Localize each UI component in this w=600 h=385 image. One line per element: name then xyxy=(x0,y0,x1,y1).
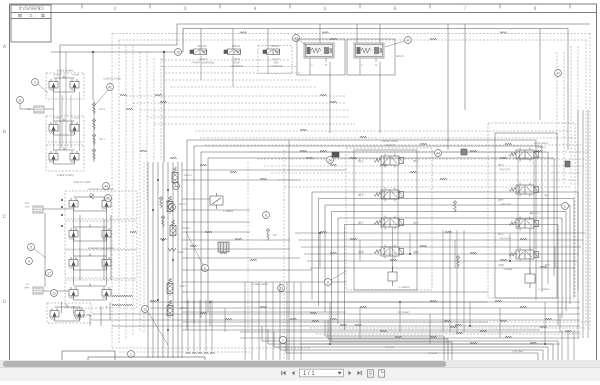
small port box right of group2 xyxy=(565,161,570,167)
pilot group lower enclosure 4 xyxy=(65,280,137,308)
junction dots buses xyxy=(209,301,211,303)
svg-text:LOWER: LOWER xyxy=(53,74,61,77)
valve group 2 dashed enclosure xyxy=(488,123,575,298)
wire top rail 2 with corner drop xyxy=(51,29,568,53)
check chain between groups lower xyxy=(456,255,460,268)
wire bundle between right groups xyxy=(443,230,464,332)
svg-text:FORWARD BACKWARD: FORWARD BACKWARD xyxy=(88,247,114,250)
directional valve V5 xyxy=(509,148,538,162)
svg-text:保温: 保温 xyxy=(498,263,504,267)
horizontal scrollbar thumb xyxy=(3,361,446,367)
tank rectangle bottom left B xyxy=(88,357,205,378)
svg-text:保温: 保温 xyxy=(358,250,364,254)
pilot group upper dashed enclosure 2 xyxy=(46,116,84,142)
svg-text:尾下: 尾下 xyxy=(498,198,504,202)
check valve chain CV5 xyxy=(159,196,163,209)
manifold dashed enclosure right edge xyxy=(247,162,249,332)
balloon 8 group1 xyxy=(325,279,332,286)
svg-text:1 (P1)/A&T: 1 (P1)/A&T xyxy=(512,350,524,353)
svg-text:PS-3: PS-3 xyxy=(99,108,105,111)
svg-text:2: 2 xyxy=(34,80,36,84)
svg-text:44: 44 xyxy=(104,184,108,188)
svg-text:HOIST: HOIST xyxy=(73,74,80,77)
svg-text:(P1)/A&T →: (P1)/A&T → xyxy=(385,346,397,349)
svg-text:T: T xyxy=(311,63,313,67)
dashed short horizontals mid-left xyxy=(126,60,355,124)
svg-text:SOL12: SOL12 xyxy=(184,174,192,177)
leader balloon6 xyxy=(186,232,203,265)
svg-text:6: 6 xyxy=(265,213,267,217)
check chain between groups upper xyxy=(453,200,457,213)
dashed enclosure SOL22 xyxy=(258,46,292,74)
svg-text:8: 8 xyxy=(327,280,329,284)
svg-text:4: 4 xyxy=(407,38,409,42)
svg-text:第3リフム: 第3リフム xyxy=(530,211,541,215)
junction dot at x93 on rail xyxy=(92,51,94,53)
pilot group upper dashed enclosure 3 xyxy=(46,145,84,171)
wire RV2 drops xyxy=(360,62,380,133)
directional valve V8 xyxy=(509,248,538,262)
svg-text:1: 1 xyxy=(130,352,132,356)
solid box around RV1 xyxy=(297,39,345,75)
hatched block manifold xyxy=(218,242,229,252)
zigzag hops dashed band xyxy=(300,150,307,152)
svg-text:6: 6 xyxy=(204,266,206,270)
pilot valve pair P8 bottom xyxy=(50,308,59,321)
svg-text:PS-1: PS-1 xyxy=(99,138,105,141)
svg-text:S.9B/1.14 MPa: S.9B/1.14 MPa xyxy=(57,70,74,73)
svg-text:1: 1 xyxy=(282,338,284,342)
svg-text:T: T xyxy=(361,63,363,67)
svg-text:(S)(2T)-R6: (S)(2T)-R6 xyxy=(500,168,511,171)
svg-text:尾上: 尾上 xyxy=(498,163,504,167)
svg-text:12: 12 xyxy=(52,291,56,295)
svg-text:1 / 1: 1 / 1 xyxy=(303,371,315,377)
wire bus mid right xyxy=(295,233,585,268)
svg-text:L.43MPa: L.43MPa xyxy=(223,210,234,213)
svg-text:S.3B+5.14 MPa: S.3B+5.14 MPa xyxy=(103,78,121,81)
junction box near balloon24 xyxy=(332,152,339,157)
directional valve V7 xyxy=(509,217,538,231)
wire short risers xyxy=(90,233,560,344)
pilot group bottom dashed enclosure xyxy=(47,303,91,323)
check valve chain CV4 xyxy=(92,148,96,161)
solid box around RV2 xyxy=(347,39,395,75)
svg-text:5.3B+5.14 MPa: 5.3B+5.14 MPa xyxy=(73,181,91,184)
svg-text:尾下: 尾下 xyxy=(358,193,364,197)
directional valve V4 xyxy=(374,245,403,259)
solenoid cartridge SOL8 xyxy=(167,300,173,318)
pilot valve pair P6 xyxy=(69,257,78,270)
balloon 2 left edge xyxy=(32,79,39,86)
svg-text:7: 7 xyxy=(464,6,467,12)
leader balloon8 xyxy=(331,271,346,280)
svg-text:45: 45 xyxy=(106,196,110,200)
svg-text:47: 47 xyxy=(556,71,560,75)
pilot valve pair P1 xyxy=(49,79,58,92)
zigzag drain ends xyxy=(186,352,190,354)
wire x93 drop to check chain xyxy=(92,52,94,100)
directional valve V3 xyxy=(374,216,403,230)
svg-text:PS1: PS1 xyxy=(273,234,278,237)
pilot group lower enclosure 2 xyxy=(65,221,137,249)
sheet left border line xyxy=(9,4,11,360)
wire pilot group verticals xyxy=(54,92,80,151)
balloon 10 left of SOL20 xyxy=(175,49,182,56)
zigzag hops bottom bus xyxy=(112,295,119,297)
balloon 24 group1 top xyxy=(327,157,334,164)
valve group 1 solid enclosure xyxy=(354,150,417,290)
dashed ring right verticals xyxy=(557,34,590,331)
svg-text:SU3M8B: SU3M8B xyxy=(504,268,513,271)
svg-text:6: 6 xyxy=(394,6,397,12)
svg-text:(L.43MPa): (L.43MPa) xyxy=(398,286,409,289)
svg-text:尾上: 尾上 xyxy=(545,194,550,197)
svg-text:3: 3 xyxy=(184,6,187,12)
balloon 6 mid xyxy=(202,265,209,272)
svg-text:工: 工 xyxy=(29,13,33,18)
svg-text:回路: 回路 xyxy=(413,250,419,254)
balloon 41 upper xyxy=(107,84,114,91)
svg-text:図: 図 xyxy=(18,13,22,18)
pilot valve pair P2 xyxy=(49,122,58,135)
leader line balloon47 to RV1 xyxy=(299,40,307,46)
solenoid cartridge SOL14 xyxy=(170,220,176,238)
svg-text:47: 47 xyxy=(294,36,298,40)
horizontal scrollbar track xyxy=(0,360,600,367)
wire right edge verticals xyxy=(562,110,588,360)
leader line balloon4 to RV2 xyxy=(385,41,404,47)
balloon 44b near pilot xyxy=(103,183,110,190)
svg-text:L.B: L.B xyxy=(25,283,29,286)
svg-text:44: 44 xyxy=(436,151,440,155)
balloon 17 left lower xyxy=(46,270,53,277)
wire RV1 drops xyxy=(310,62,330,133)
svg-text:41: 41 xyxy=(108,85,112,89)
relief valve small on manifold xyxy=(210,193,223,209)
wire bus bottom xyxy=(92,302,580,344)
svg-text:13: 13 xyxy=(143,307,147,311)
svg-text:2: 2 xyxy=(114,6,117,12)
svg-text:23: 23 xyxy=(279,286,283,290)
tank rectangle bottom left A xyxy=(62,351,115,378)
pilot valve pair P5 xyxy=(69,228,78,241)
node dots manifold xyxy=(157,179,159,181)
wire bottom feed trio xyxy=(325,320,452,360)
svg-text:(1.43MPa): (1.43MPa) xyxy=(538,288,549,291)
leader balloon3 xyxy=(34,249,46,258)
leader line balloon2 xyxy=(38,84,48,93)
solenoid cartridge SOL12 xyxy=(172,167,178,185)
svg-text:C8J55707-F: C8J55707-F xyxy=(18,6,43,11)
dashed band horizontals right xyxy=(195,131,588,187)
check valve chain CV3 xyxy=(92,133,96,146)
solenoid cartridge SOL7 xyxy=(167,278,173,296)
svg-text:HOIST: HOIST xyxy=(73,117,80,120)
svg-text:4: 4 xyxy=(28,259,30,263)
svg-text:(S)(3T)-R6: (S)(3T)-R6 xyxy=(500,237,511,240)
solenoid cartridge SOL13 xyxy=(167,196,173,214)
directional valve V2 xyxy=(374,188,403,202)
wire chain vertical link xyxy=(93,100,95,162)
balloon 45b near pilot xyxy=(105,195,112,202)
svg-text:44: 44 xyxy=(174,184,178,188)
svg-text:SOL20: SOL20 xyxy=(198,44,207,48)
wire relief feed drops xyxy=(320,24,380,43)
junction dot at x164 xyxy=(163,51,165,53)
svg-text:尾上: 尾上 xyxy=(498,232,504,236)
balloon 3 left xyxy=(28,244,35,251)
leader line balloon 41 xyxy=(96,90,108,104)
svg-text:11: 11 xyxy=(18,98,22,102)
balloon 4 right of RV2 xyxy=(405,37,412,44)
svg-text:5: 5 xyxy=(564,204,566,208)
svg-text:4: 4 xyxy=(254,6,257,12)
svg-text:SOL13: SOL13 xyxy=(179,203,187,206)
svg-text:L2ME3(-R6: L2ME3(-R6 xyxy=(499,203,511,206)
svg-text:MPa: MPa xyxy=(25,287,30,290)
toolbar controls svg xyxy=(275,367,400,380)
wire x164 drop to manifold xyxy=(163,52,165,162)
svg-text:SOL8: SOL8 xyxy=(180,307,187,310)
row letters A B C D left edge xyxy=(3,44,7,305)
dashed bottom short xyxy=(112,322,590,352)
wire solenoid feed drops xyxy=(201,29,268,50)
check block group2 xyxy=(525,268,535,288)
filter box F1 left edge xyxy=(34,106,44,113)
zigzag hops extra xyxy=(130,231,137,233)
wire group1 verticals xyxy=(382,166,398,272)
balloon 13 bottom left xyxy=(142,306,149,313)
svg-text:S: S xyxy=(325,63,327,67)
balloon 12 lower xyxy=(51,290,58,297)
sheet top border line xyxy=(10,3,598,5)
solenoid valve SOL22 xyxy=(263,49,280,55)
sheet right border line xyxy=(596,4,598,360)
dashed ring top edges xyxy=(112,34,590,41)
solenoid valve SOL20 xyxy=(190,49,207,55)
svg-text:7034 (1): 7034 (1) xyxy=(537,146,546,149)
wire F1 feed xyxy=(20,104,54,109)
manifold dashed enclosure left edge xyxy=(143,162,145,332)
wire pilot lower drops to bus xyxy=(62,302,107,326)
balloon 45 mid-left xyxy=(169,204,176,211)
svg-text:(P1)/A&T →: (P1)/A&T → xyxy=(428,352,440,355)
balloon 47 left of RV1 xyxy=(293,35,300,42)
leader balloon13 xyxy=(148,312,168,345)
svg-text:PS-1: PS-1 xyxy=(178,251,184,254)
balloon 1 bottom center xyxy=(280,337,287,344)
svg-text:尾下: 尾下 xyxy=(358,221,364,225)
svg-text:SOL7: SOL7 xyxy=(180,285,187,288)
svg-text:尾下: 尾下 xyxy=(413,221,419,225)
svg-text:USE: USE xyxy=(25,206,30,209)
svg-text:17: 17 xyxy=(47,271,51,275)
wire feeds left boxes xyxy=(43,209,69,291)
svg-text:EXT: EXT xyxy=(25,202,30,205)
wire nested distribution set A xyxy=(187,140,554,330)
inner frame horizontal line xyxy=(51,12,597,14)
svg-text:FRONT HOIST: FRONT HOIST xyxy=(381,140,399,143)
svg-text:5: 5 xyxy=(324,6,327,12)
svg-text:尾上: 尾上 xyxy=(358,159,364,163)
svg-text:REAR HOIST: REAR HOIST xyxy=(534,142,549,145)
balloon 23 center bottom xyxy=(278,285,285,292)
spring symbol M PS-1 lower xyxy=(168,248,176,251)
svg-text:SOL22: SOL22 xyxy=(271,44,280,48)
balloon 1 bottom left xyxy=(128,351,135,358)
junction box right of balloon44 xyxy=(461,149,467,155)
svg-text:S: S xyxy=(375,63,377,67)
check valve below balloon6 xyxy=(266,228,270,241)
dashed ring left verticals xyxy=(112,34,161,349)
wire top rail 1 with corner drop to pilot feed xyxy=(60,24,590,150)
wire manifold horizontal taps xyxy=(182,170,540,330)
directional valve V6 xyxy=(509,183,538,197)
zigzag hops mid bus xyxy=(320,231,327,233)
wire manifold drain bundle xyxy=(188,300,212,351)
wire bottom center vertical bundle xyxy=(245,282,301,360)
svg-text:S.3B/5.76 MPa: S.3B/5.76 MPa xyxy=(57,174,74,177)
svg-text:SOL21: SOL21 xyxy=(232,44,241,48)
svg-text:10: 10 xyxy=(176,50,180,54)
pilot valve pair P7 xyxy=(69,287,78,300)
relief valve block RV2 xyxy=(354,43,384,62)
balloon 4 left lower xyxy=(26,258,33,265)
svg-text:24: 24 xyxy=(328,158,332,162)
wire right long verticals from rail xyxy=(448,24,568,150)
filter box F3 left edge xyxy=(33,287,43,294)
svg-text:LOWER: LOWER xyxy=(53,117,61,120)
wire nested distribution set B xyxy=(312,192,578,330)
check block group1 xyxy=(388,266,397,286)
svg-text:C: C xyxy=(3,214,7,220)
svg-text:8: 8 xyxy=(534,6,537,12)
filter box F2 left edge xyxy=(33,206,43,213)
check valve chain CV6 xyxy=(161,215,165,228)
directional valve V1 xyxy=(374,154,403,168)
check valve chain CV1 xyxy=(92,102,96,115)
ruler numbers 1-8 xyxy=(114,6,537,12)
pilot valve pair P4 xyxy=(69,198,78,211)
manifold vertical bundle xyxy=(148,162,182,358)
relief valve block RV1 xyxy=(304,43,334,62)
wire pilot feed vertical x66 xyxy=(65,52,67,150)
svg-text:FRONT LOWERING: FRONT LOWERING xyxy=(192,62,215,65)
svg-text:3: 3 xyxy=(30,245,32,249)
svg-text:BOL3?: BOL3? xyxy=(396,55,404,58)
wire pilot lower verticals xyxy=(74,211,112,285)
pilot group lower enclosure 1 xyxy=(65,191,137,219)
pilot group lower enclosure 3 xyxy=(65,250,137,278)
wire sol bottom drops xyxy=(201,56,268,88)
balloon 6 right of manifold xyxy=(263,212,270,219)
valve group 1 dashed enclosure xyxy=(346,148,432,290)
check valve chain CV2 xyxy=(92,118,96,131)
junction dots pilot feed column xyxy=(61,199,63,201)
title block xyxy=(11,5,51,42)
balloon 11 left edge xyxy=(17,97,24,104)
svg-text:S.3B13.B2 MPa: S.3B13.B2 MPa xyxy=(73,314,91,317)
balloon 44 mid right xyxy=(435,150,442,157)
svg-text:7034 (2): 7034 (2) xyxy=(385,144,395,147)
pilot group upper dashed enclosure 1 xyxy=(46,73,84,99)
svg-text:尾上: 尾上 xyxy=(413,159,419,163)
svg-text:SOL14: SOL14 xyxy=(182,227,190,230)
wire bottom corner cascade xyxy=(262,326,558,360)
dashed vertical x284 xyxy=(283,150,285,360)
balloon 47 upper right xyxy=(555,70,562,77)
solenoid valve SOL21 xyxy=(224,49,241,55)
viewer toolbar background xyxy=(0,367,600,381)
zigzag hops bottom dashed xyxy=(312,320,319,322)
wire group2 verticals xyxy=(518,160,534,274)
ruler tick marks top xyxy=(82,4,570,9)
svg-text:D: D xyxy=(3,299,7,305)
valve group 2 solid enclosure xyxy=(495,133,557,298)
svg-text:FORWARD BACKWARD: FORWARD BACKWARD xyxy=(88,188,114,191)
spring Z near pilot xyxy=(90,193,94,199)
svg-text:第: 第 xyxy=(41,13,45,18)
svg-text:B/R: B/R xyxy=(27,108,31,111)
balloon 44 mid-left xyxy=(173,183,180,190)
pilot valve pair P3 xyxy=(49,151,58,164)
balloon 5 group2 xyxy=(562,203,569,210)
wire vertical x289 xyxy=(288,140,290,360)
